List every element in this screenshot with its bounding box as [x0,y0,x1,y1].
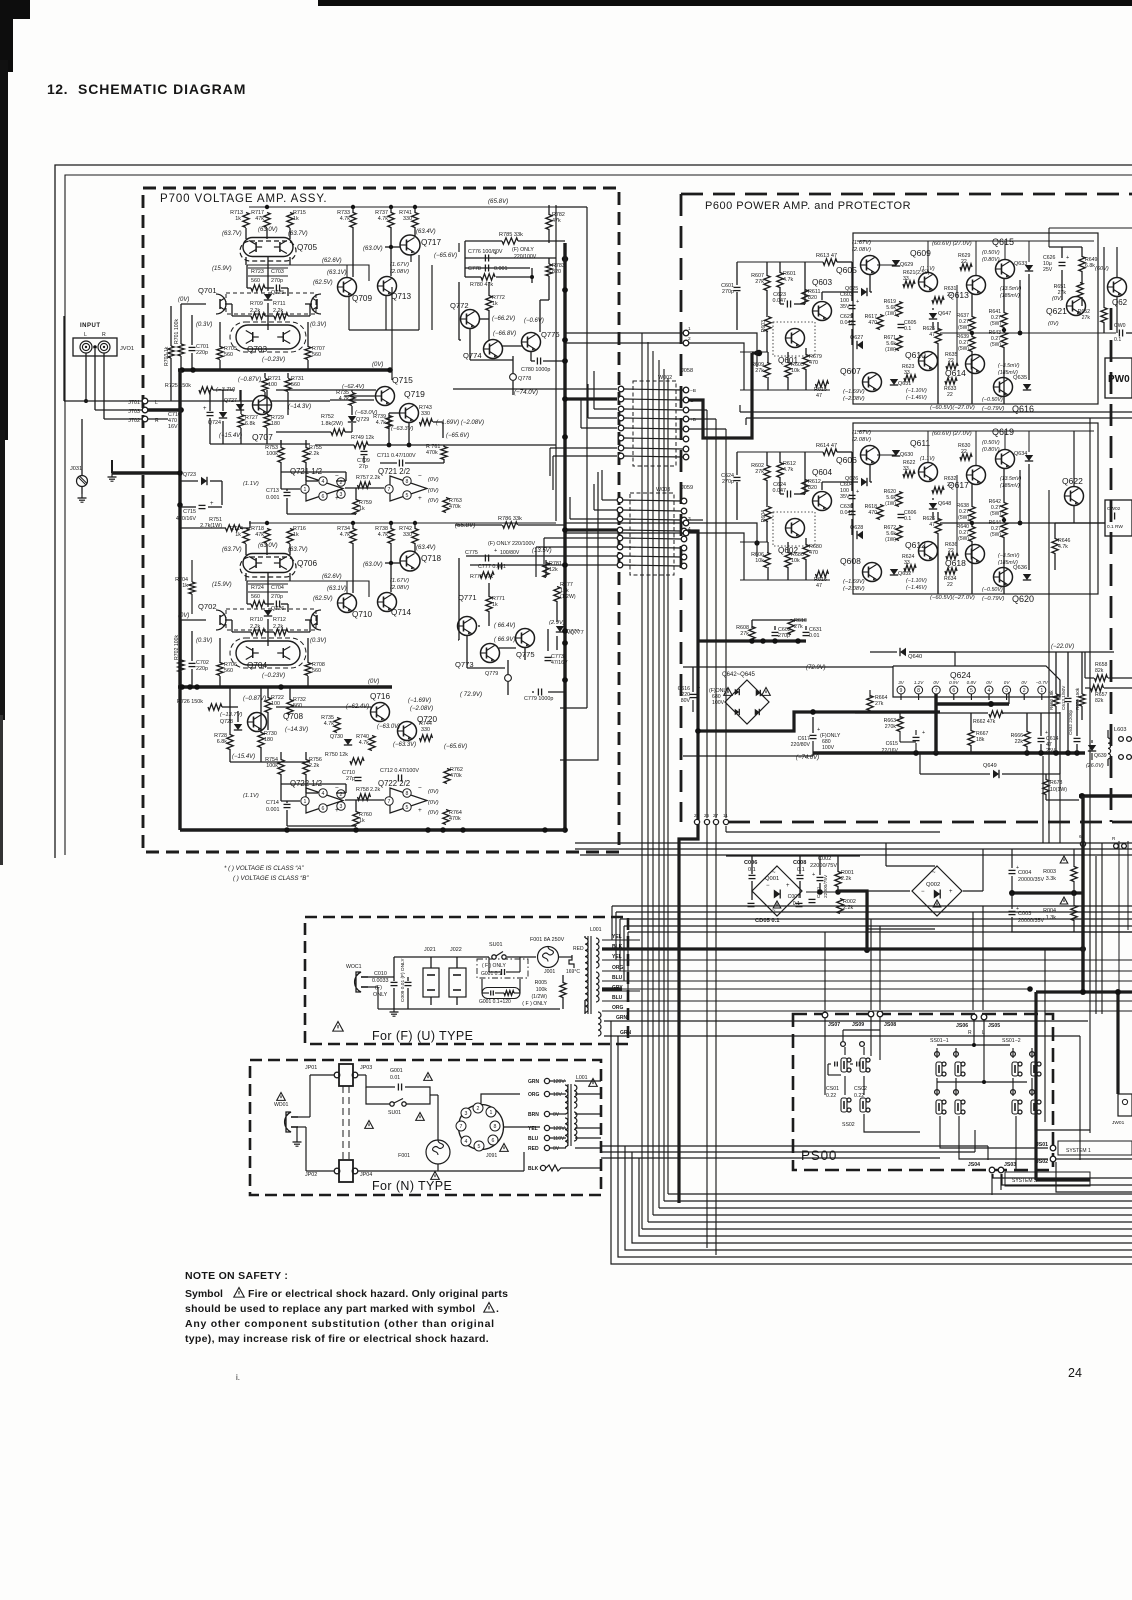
P700 interior long rails [555,205,557,521]
svg-text:(63.7V): (63.7V) [222,547,242,553]
svg-text:1k: 1k [182,583,188,589]
wires to system connectors [940,1116,1048,1148]
wires N bottom [358,1170,438,1172]
svg-text:270p: 270p [722,479,734,485]
capacitor C712 0.47/100V [397,775,399,782]
svg-text:(−65.6V): (−65.6V) [444,744,467,750]
resistor R705 560 [217,347,223,360]
svg-text:82k: 82k [1095,698,1104,704]
svg-text:(1.1V): (1.1V) [920,456,935,462]
svg-text:( 66.4V): ( 66.4V) [494,623,515,629]
svg-text:(5W): (5W) [958,325,969,331]
svg-text:(60.6V) (27.0V): (60.6V) (27.0V) [932,431,972,437]
svg-text:(63.0V): (63.0V) [363,562,383,568]
wires Q707 area [209,390,211,411]
svg-text:C780 1000p: C780 1000p [521,367,550,373]
svg-text:C712 0.47/100V: C712 0.47/100V [380,768,419,774]
svg-text:Q714: Q714 [391,608,411,617]
bottom psu rail [1011,931,1132,933]
transistor Q713 [378,277,397,296]
svg-text:4.7k: 4.7k [359,740,369,746]
svg-text:JW01: JW01 [1112,1120,1125,1126]
svg-text:BLK: BLK [528,1166,539,1172]
svg-text:R613 47: R613 47 [816,253,837,259]
svg-text:JVO1: JVO1 [120,346,134,352]
svg-text:J702: J702 [128,418,140,424]
svg-text:J022: J022 [450,947,462,953]
W002 connector dashed box [633,381,676,466]
svg-text:Q615: Q615 [992,237,1014,247]
svg-text:24: 24 [1068,1366,1082,1380]
svg-text:270k: 270k [885,724,897,730]
svg-text:R750 12k: R750 12k [325,752,348,758]
svg-text:47: 47 [929,332,935,338]
svg-text:82k: 82k [1095,668,1104,674]
svg-text:Q635: Q635 [1013,375,1027,381]
resistor R738 4.7k [388,529,394,544]
svg-text:R: R [968,1030,972,1036]
svg-text:27k: 27k [755,469,764,475]
scan black corner block [0,0,30,19]
svg-text:SCHEMATIC DIAGRAM: SCHEMATIC DIAGRAM [78,81,246,97]
connector pin row 399 [618,396,624,402]
svg-text:10k: 10k [755,558,764,564]
svg-text:330: 330 [403,216,412,222]
svg-text:Q636: Q636 [1013,565,1027,571]
left relay contacts SS02 [841,1042,846,1047]
svg-text:220p: 220p [196,350,208,356]
svg-text:R723: R723 [251,269,264,275]
capacitor C716 470/16V [207,411,214,413]
diode Q630 [892,450,900,456]
svg-text:(−3.5mV): (−3.5mV) [998,363,1020,369]
svg-text:~: ~ [772,908,776,914]
transistor Q775 [516,629,535,648]
capacitor C003 20000/35V [1009,910,1016,912]
svg-text:R725 150k: R725 150k [165,383,191,389]
svg-text:1.2V: 1.2V [914,680,924,685]
svg-text:4.7k: 4.7k [378,532,388,538]
svg-text:(0.50V): (0.50V) [982,250,1000,256]
svg-text:0.047: 0.047 [840,320,854,326]
svg-text:Q606: Q606 [836,455,857,465]
svg-text:L: L [84,332,87,338]
resistor R702 100k [178,660,184,672]
svg-text:(15.9V): (15.9V) [212,266,232,272]
svg-text:330: 330 [421,411,430,417]
resistor R004 1.3k [1060,897,1068,904]
svg-text:J059: J059 [681,485,693,491]
thick BLK vertical right [1081,796,1084,992]
svg-text:(−15.4V): (−15.4V) [232,754,255,760]
resistor R758 2.2k [358,794,371,800]
resistor R638 0.27 5W [969,507,975,522]
svg-text:5: 5 [478,1144,481,1150]
svg-text:C715: C715 [183,509,196,515]
svg-text:3: 3 [465,1111,468,1117]
svg-text:R710: R710 [250,617,263,623]
resistor R615 47 [816,381,829,387]
svg-text:7: 7 [935,688,938,694]
svg-text:+: + [203,406,207,412]
speaker wire rows right [575,842,1132,844]
svg-text:(0V): (0V) [428,498,439,504]
svg-text:(−0.6V): (−0.6V) [524,318,544,324]
diode Q634 [1025,455,1033,461]
svg-text:(2.08V): (2.08V) [852,437,871,443]
thick ground bus upper [178,368,392,371]
svg-text:R701 100k: R701 100k [174,319,180,344]
transistor Q715 [376,387,395,406]
svg-text:8: 8 [406,479,409,485]
svg-text:(−65.6V): (−65.6V) [446,433,469,439]
capacitor C780 1000p [536,358,538,365]
svg-text:Q610: Q610 [905,350,926,360]
capacitor C776 100/80V [484,255,486,262]
diode Q648 [929,503,937,509]
diode Q635d [1023,384,1031,390]
svg-text:Q730: Q730 [330,734,343,740]
resistor R708 560 [305,663,311,676]
svg-text:330: 330 [421,727,430,733]
svg-text:Q716: Q716 [370,692,390,701]
svg-text:(15.9V): (15.9V) [212,582,232,588]
psu top rail [726,855,860,857]
capacitor C631 0.01 [803,631,810,633]
diode Q727 [236,404,244,410]
resistor R741 330 [412,213,418,228]
svg-text:(13.5V): (13.5V) [532,548,552,554]
svg-text:470: 470 [868,320,877,326]
resistor R783 820 [546,264,552,276]
svg-text:Any other component substit: Any other component substitution (other … [185,1318,495,1330]
svg-text:(0V): (0V) [372,362,383,368]
svg-text:(5W): (5W) [990,511,1001,517]
svg-text:12k: 12k [549,567,558,573]
connector J702 [142,416,148,422]
fan feeder elbows [556,206,587,208]
block frame wires [464,241,466,277]
resistor R604 15k [765,507,771,522]
svg-text:5: 5 [406,805,409,811]
svg-text:2.2k: 2.2k [309,451,319,457]
svg-text:0V: 0V [1021,680,1028,685]
capacitor C624 0.047 [786,491,788,498]
capacitor C602 270p [772,631,779,633]
svg-text:27k: 27k [740,631,749,637]
resistor R671 5.6k [896,336,902,351]
svg-text:(13.5mV): (13.5mV) [1000,286,1022,292]
transistor Q710 [338,594,357,613]
resistor R771 1k [486,597,492,612]
svg-text:R659 150k: R659 150k [1075,687,1080,710]
svg-text:10V: 10V [553,1092,563,1098]
svg-text:0V: 0V [933,680,940,685]
svg-text:ORG: ORG [612,965,624,971]
resistor R721 100 [262,379,268,392]
svg-text:R709: R709 [250,301,263,307]
svg-text:560: 560 [224,668,233,674]
svg-text:3.3k: 3.3k [1046,876,1056,882]
connector JP04 [352,1168,358,1174]
svg-text:R004: R004 [1043,908,1056,914]
svg-text:ORG: ORG [528,1092,540,1098]
svg-text:+: + [786,883,790,889]
svg-text:(1.67V): (1.67V) [390,262,409,268]
svg-text:100/80V: 100/80V [500,550,520,556]
svg-text:0.047: 0.047 [773,298,787,304]
resistor R763 470k [443,498,449,513]
diode Q640 [900,648,906,656]
svg-text:WOC1: WOC1 [346,964,362,970]
transistor Q608 [863,563,882,582]
svg-text:(0V): (0V) [1052,296,1063,302]
svg-text:(−0.50V): (−0.50V) [982,397,1003,403]
wire supply rail 65.8V [249,522,556,524]
resistor R625 47 [935,329,941,344]
svg-text:560: 560 [251,278,260,284]
wire supply rail 65.8V [249,206,556,208]
thick minus74 rail [813,751,1085,754]
resistor R742 330 [412,529,418,544]
svg-text:Q710: Q710 [352,610,372,619]
svg-text:L603: L603 [1114,727,1126,733]
diode Q649 [993,770,999,778]
svg-text:BLU: BLU [612,975,623,981]
connector midrow 1 [1080,841,1085,846]
capacitor C604 100 35V [849,494,856,496]
wire -74 rail [683,755,813,757]
svg-text:4: 4 [322,791,325,797]
svg-text:Q702: Q702 [198,602,217,611]
svg-text:47k: 47k [255,532,264,538]
svg-text:should be used to replace any: should be used to replace any part marke… [185,1303,475,1315]
svg-text:(0.50V): (0.50V) [982,440,1000,446]
svg-text:( 72.9V): ( 72.9V) [460,691,482,698]
thin rail y713 [855,712,988,714]
connector pin row 418 [618,415,624,421]
svg-text:ORG: ORG [612,1005,624,1011]
svg-text:(26.0V): (26.0V) [1086,763,1104,769]
output stage box channel 2 [853,423,1098,594]
svg-text:28: 28 [694,813,700,818]
resistor R634 22 [945,568,957,574]
CW002 box [1105,500,1132,536]
svg-text:R785 33k: R785 33k [499,232,523,238]
transistor Q635c [994,378,1013,397]
wires J701 into P700 [148,400,171,402]
svg-text:Q640: Q640 [908,654,922,660]
svg-text:1k: 1k [235,216,241,222]
svg-text:PS00: PS00 [801,1148,837,1163]
svg-text:560: 560 [293,703,302,709]
svg-text:470k: 470k [450,773,462,779]
svg-text:J001: J001 [544,969,555,975]
svg-text:(1/2W): (1/2W) [560,594,576,600]
svg-text:(−14.3V): (−14.3V) [285,727,308,733]
svg-text:(0V): (0V) [178,297,189,303]
svg-text:(63.4V): (63.4V) [416,545,436,551]
resistor R780 47k [481,274,495,280]
svg-text:Q727: Q727 [224,398,237,404]
svg-text:22: 22 [961,449,967,455]
svg-text:8: 8 [917,688,920,694]
svg-text:R749 12k: R749 12k [351,435,374,441]
capacitor C709 27p [361,450,368,452]
svg-text:(0V): (0V) [428,488,439,494]
svg-text:R786 33k: R786 33k [498,516,522,522]
svg-text:JP02: JP02 [305,1172,317,1178]
svg-text:180: 180 [271,421,280,427]
svg-text:470: 470 [868,510,877,516]
svg-text:(−0.87V): (−0.87V) [243,696,266,702]
svg-text:22k: 22k [1015,739,1024,745]
resistor R756 2.2k [303,760,309,775]
svg-text:JS01: JS01 [1036,1142,1048,1148]
svg-text:2: 2 [688,336,691,342]
thick path J059 down [679,531,698,1203]
svg-text:BLU: BLU [612,995,623,1001]
svg-text:(1W): (1W) [885,347,896,353]
svg-text:(63.7V): (63.7V) [288,231,308,237]
svg-text:Q701: Q701 [198,286,217,295]
svg-text:L001: L001 [590,927,602,933]
svg-text:Q728: Q728 [220,719,233,725]
svg-text:Q001: Q001 [765,876,779,882]
transistor Q605 [861,256,880,275]
svg-text:(63.0V): (63.0V) [363,246,383,252]
svg-text:L001: L001 [576,1075,588,1081]
resistor R666 22k [1024,732,1030,747]
svg-text:(−63.0V): (−63.0V) [377,724,400,730]
svg-text:( F ) ONLY: ( F ) ONLY [522,1001,547,1007]
svg-text:(−62.4V): (−62.4V) [342,384,364,390]
resistor R659 150k [1079,694,1085,706]
diode Q777 [556,626,564,632]
wires Q708 area [229,687,231,735]
capacitor C775 100/80V [484,555,486,562]
rail -22V [909,651,1114,653]
svg-text:−: − [418,473,422,480]
thick JW01 feed [1116,992,1119,1094]
svg-text:+: + [1066,255,1069,261]
resistor R663 270k [897,717,903,732]
scan black left bar [0,0,13,72]
svg-text:+: + [418,495,422,502]
svg-text:−: − [766,883,770,889]
svg-text:+: + [856,299,859,305]
svg-text:F001: F001 [398,1153,410,1159]
svg-text:560: 560 [312,668,321,674]
svg-text:( ) VOLTAGE IS CLASS “B”: ( ) VOLTAGE IS CLASS “B” [233,875,309,882]
svg-text:470: 470 [809,360,818,366]
svg-text:+: + [856,489,859,495]
svg-text:22: 22 [947,392,953,398]
GRN long wires [660,1020,1088,1022]
svg-text:4.7k: 4.7k [1058,544,1068,550]
capacitor C606 0.1 [898,513,905,515]
svg-text:C779 1000p: C779 1000p [524,696,553,702]
thick rail y640 [698,639,806,642]
svg-text:C778: C778 [468,266,481,272]
svg-text:5: 5 [406,493,409,499]
svg-text:R758: R758 [356,787,369,793]
svg-text:1: 1 [490,1110,493,1116]
resistor R730 180 [258,733,264,748]
svg-text:(−0.23V): (−0.23V) [262,357,285,363]
svg-text:270p: 270p [271,278,283,284]
svg-text:4.7k: 4.7k [340,216,350,222]
svg-text:Q622: Q622 [1062,476,1083,486]
svg-text:R724: R724 [251,585,264,591]
svg-text:0.001: 0.001 [266,495,280,501]
dual transistor Q706 [245,544,247,555]
svg-text:Q603: Q603 [812,278,832,287]
resistor R755 2.2k [303,448,309,463]
svg-text:(1/2W): (1/2W) [531,994,547,1000]
svg-text:(63.7V): (63.7V) [222,231,242,237]
svg-text:Q715: Q715 [392,375,413,385]
transistor Q716 [371,703,390,722]
connector JP01 [334,1072,340,1078]
PW001 box [1105,358,1132,398]
svg-text:C711 0.47/100V: C711 0.47/100V [377,453,416,459]
svg-text:Q778: Q778 [518,376,531,382]
svg-text:27k: 27k [1082,315,1091,321]
resistor R673 10(1W) [1043,780,1049,795]
svg-text:−: − [335,473,339,480]
diode Q724 [219,412,227,418]
svg-text:INPUT: INPUT [80,323,101,329]
bundle verticals right of J058 [706,410,708,818]
svg-text:(0V): (0V) [368,679,379,685]
svg-text:J701: J701 [128,400,140,406]
switch SU01 N [390,1102,394,1106]
diode Q636d [1023,574,1031,580]
diode Q633 [1025,265,1033,271]
svg-text:22: 22 [947,582,953,588]
wire rows above FU box [612,905,1132,907]
svg-text:0.1: 0.1 [797,867,805,873]
svg-text:CS01: CS01 [826,1086,839,1092]
svg-text:1k: 1k [235,532,241,538]
svg-text:R752: R752 [321,414,334,420]
svg-text:(2.08V): (2.08V) [390,585,409,591]
svg-text:~: ~ [932,870,936,876]
thick BLK wire [602,947,1083,950]
svg-text:Q718: Q718 [421,554,441,563]
transistor Q720 [398,722,417,741]
capacitor C710 27p [355,776,362,778]
P700 fan wires upper connector J058 [453,388,617,390]
ground FU [393,1008,395,1012]
resistor R001 2.2k [835,872,841,887]
connector pin row 438 [618,435,624,441]
svg-text:820: 820 [808,485,817,491]
svg-text:120V: 120V [553,1126,565,1132]
svg-text:25V: 25V [1046,748,1056,754]
svg-text:100: 100 [271,701,280,707]
wire 72.9 rail [683,666,893,668]
svg-text:(5W): (5W) [958,346,969,352]
svg-text:16V: 16V [168,424,178,430]
thick psu link [838,891,867,950]
G001 filter oval [482,988,520,999]
svg-text:(63.7V): (63.7V) [288,547,308,553]
resistor R003 3.3k [1060,856,1068,863]
capacitor C601 270p [734,286,741,288]
svg-text:(0.80V): (0.80V) [982,257,1000,263]
